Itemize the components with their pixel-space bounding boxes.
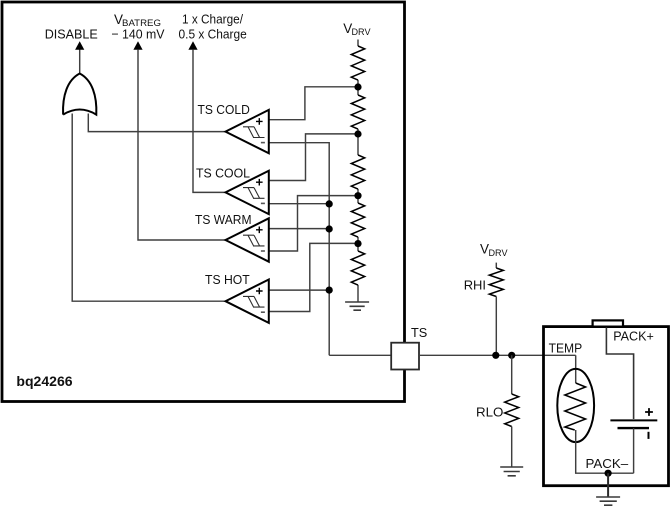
comparator TS COLD	[198, 102, 269, 153]
thermistor TEMP	[557, 369, 594, 442]
svg-text:TS WARM: TS WARM	[195, 212, 252, 227]
wire: TS COOL + input from ladder tap2	[269, 134, 358, 181]
svg-text:DRV: DRV	[352, 27, 372, 38]
wire: RHI to TS node	[495, 297, 497, 356]
arrowhead DISABLE	[75, 41, 84, 50]
arrowhead 1x/0.5x Charge	[188, 41, 197, 50]
junction dot: ladder tap4	[354, 240, 361, 247]
pack terminal tab	[593, 320, 623, 326]
resistor R1 (ladder top)	[351, 46, 364, 80]
resistor R3	[351, 155, 364, 189]
battery BT1 plates	[610, 419, 657, 421]
wire: PACK+ to battery	[606, 328, 633, 420]
wire: TS HOT + input to TS bus	[269, 289, 329, 291]
junction dot: RHI node	[492, 352, 499, 359]
resistor R2	[351, 95, 364, 129]
svg-text:0.5 x Charge: 0.5 x Charge	[179, 26, 247, 41]
ground (ladder)	[345, 302, 369, 310]
svg-text:TS: TS	[411, 325, 428, 340]
wire: TS COOL - input to TS bus	[269, 203, 329, 205]
wire: TS HOT output to OR gate left input	[72, 114, 225, 302]
wire: PACK- to ground	[607, 473, 609, 497]
resistor R5 (ladder bottom)	[351, 251, 364, 285]
TS pin box	[391, 343, 419, 370]
wire: TEMP node down into thermistor	[575, 355, 577, 383]
wire: TS HOT - input from ladder tap4	[269, 243, 358, 311]
wire: node to RLO	[511, 355, 513, 394]
wire: ladder segments	[357, 40, 359, 302]
wire: VDRV to RHI	[495, 263, 497, 268]
junction dot: ladder tap1	[354, 83, 361, 90]
wire: OR gate output to DISABLE arrow	[79, 49, 81, 74]
wire: TS COLD + input from ladder tap1	[269, 87, 358, 120]
comparator TS WARM	[195, 212, 269, 262]
svg-text:DISABLE: DISABLE	[45, 26, 98, 41]
resistor RHI	[489, 268, 503, 297]
junction dot: RLO node	[508, 352, 515, 359]
svg-text:RHI: RHI	[464, 277, 486, 292]
ground (pack)	[596, 497, 620, 505]
IC boundary box bq24266	[2, 2, 405, 402]
svg-text:− 140 mV: − 140 mV	[111, 26, 164, 41]
svg-text:TEMP: TEMP	[549, 340, 583, 355]
wire: RLO to ground	[511, 427, 513, 467]
junction dot: bus / TS WARM +	[326, 225, 333, 232]
wire: TS WARM + input to TS bus	[269, 228, 329, 230]
wire: TS WARM output to VBATREG-140mV arrow	[138, 50, 226, 240]
battery - mark	[648, 432, 650, 439]
junction dot: PACK- node	[605, 470, 612, 477]
wire: TS WARM - input from ladder tap3	[269, 196, 358, 251]
svg-text:DRV: DRV	[489, 248, 509, 259]
wire: battery negative to PACK- node	[633, 428, 635, 473]
svg-text:PACK–: PACK–	[586, 456, 629, 471]
battery + mark	[645, 408, 653, 416]
wire: TS COOL output to 1x/0.5x Charge arrow	[193, 50, 226, 193]
svg-text:bq24266: bq24266	[16, 373, 72, 389]
wire: TS COLD output to OR gate right input	[88, 114, 225, 132]
arrowhead VBATREG-140mV	[133, 41, 142, 50]
junction dot: ladder tap3	[354, 192, 361, 199]
OR gate U1	[63, 74, 96, 115]
resistor RLO	[505, 394, 519, 427]
junction dot: bus / TS COOL -	[326, 200, 333, 207]
svg-text:PACK+: PACK+	[613, 328, 654, 343]
resistor R4	[351, 203, 364, 237]
svg-text:TS HOT: TS HOT	[205, 272, 250, 287]
svg-text:1 x Charge/: 1 x Charge/	[182, 11, 243, 26]
junction dot: ladder tap2	[354, 130, 361, 137]
ground (RLO)	[500, 467, 523, 476]
wire: TS pin to pack TEMP node	[419, 354, 576, 356]
svg-text:TS COLD: TS COLD	[198, 102, 250, 117]
svg-text:RLO: RLO	[476, 404, 503, 419]
wire: TS COLD - input to TS bus	[269, 143, 329, 356]
svg-text:TS COOL: TS COOL	[196, 165, 250, 180]
battery pack enclosure	[544, 327, 669, 486]
wire: thermistor bottom to PACK- node	[576, 430, 634, 473]
junction dot: bus / TS HOT +	[326, 287, 333, 294]
comparator TS COOL	[196, 165, 269, 214]
comparator TS HOT	[205, 272, 269, 323]
wire: TS bus to TS pin	[329, 354, 391, 356]
